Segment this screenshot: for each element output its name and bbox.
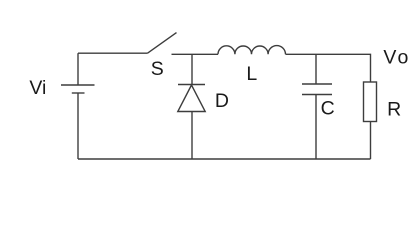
wire top-left rail <box>78 52 148 54</box>
node capacitor junction <box>315 54 317 84</box>
wire bottom rail <box>78 158 371 160</box>
svg-text:L: L <box>246 63 257 85</box>
svg-text:Vi: Vi <box>29 77 46 99</box>
resistor R body <box>364 82 377 122</box>
inductor L <box>218 46 286 55</box>
diode D triangle <box>178 85 205 112</box>
wire switch right contact to inductor <box>172 53 219 55</box>
wire inductor to output corner <box>286 54 371 82</box>
svg-text:C: C <box>321 97 335 119</box>
switch S blade <box>148 33 177 54</box>
svg-text:S: S <box>151 58 164 80</box>
svg-text:D: D <box>215 90 229 112</box>
wire battery bottom lead <box>77 93 79 159</box>
wire capacitor bottom lead <box>315 95 317 160</box>
svg-text:Vo: Vo <box>383 47 410 69</box>
wire diode anode to bottom rail <box>191 112 193 160</box>
wire resistor bottom lead <box>370 122 372 160</box>
wire battery top lead <box>77 53 79 85</box>
diode D cathode bar <box>178 84 205 86</box>
battery Vi source plates <box>61 85 95 93</box>
svg-text:R: R <box>387 98 401 120</box>
capacitor C plates <box>302 84 332 95</box>
node switch-diode junction <box>191 54 193 84</box>
